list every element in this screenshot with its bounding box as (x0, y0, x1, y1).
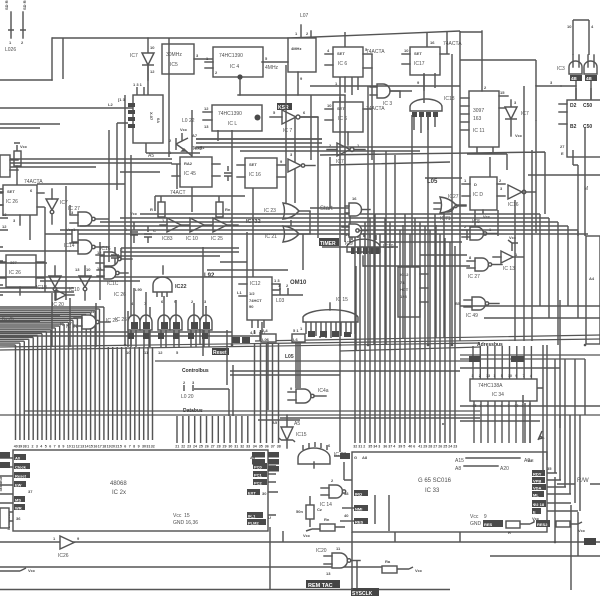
svg-text:1: 1 (493, 374, 495, 378)
svg-text:VDA: VDA (533, 486, 542, 491)
svg-text:37: 37 (271, 445, 275, 449)
svg-text:27: 27 (560, 144, 565, 149)
gate IC27b nand lower (60, 309, 110, 329)
transistor Tex2 (169, 118, 203, 156)
svg-text:90: 90 (249, 304, 254, 309)
svg-text:A7: A7 (192, 133, 198, 138)
svg-text:Φ2 18: Φ2 18 (533, 502, 545, 507)
svg-text:12: 12 (2, 224, 7, 229)
gate IC27d center (467, 255, 502, 280)
svg-text:A5: A5 (148, 153, 154, 159)
svg-text:24: 24 (193, 445, 197, 449)
inverter IC10 down left lower (69, 266, 91, 300)
IC2x outside left boxes (0, 452, 10, 528)
svg-text:EXT: EXT (248, 491, 256, 496)
svg-text:10: 10 (508, 374, 512, 378)
svg-text:RES: RES (355, 520, 364, 525)
big IC left 48068 (13, 450, 268, 531)
inverter IC21b after IC16 (288, 152, 315, 172)
counter IC11 (461, 31, 508, 147)
svg-text:5: 5 (120, 445, 122, 449)
svg-text:21: 21 (116, 445, 120, 449)
svg-text:IC7: IC7 (60, 200, 68, 206)
svg-text:IC 2x: IC 2x (112, 490, 126, 496)
capacitor C mid (124, 222, 138, 243)
svg-text:RES2: RES2 (537, 522, 548, 527)
svg-text:5: 5 (403, 445, 405, 449)
svg-text:L90: L90 (135, 287, 143, 292)
svg-text:32: 32 (151, 445, 155, 449)
svg-text:A8: A8 (362, 455, 368, 460)
svg-text:15: 15 (89, 445, 93, 449)
svg-text:C: C (153, 228, 156, 233)
svg-text:D2: D2 (570, 103, 577, 109)
svg-text:IC 27: IC 27 (334, 452, 346, 458)
svg-text:A15: A15 (455, 458, 464, 464)
svg-text:IC1C: IC1C (107, 281, 119, 287)
svg-text:IC 27: IC 27 (66, 324, 78, 330)
flipflop ICD center right (462, 177, 505, 219)
svg-text:PC0: PC0 (254, 465, 263, 470)
svg-text:40: 40 (408, 445, 412, 449)
gate ICU nand left (64, 240, 108, 254)
svg-text:4: 4 (530, 374, 532, 378)
svg-text:IC12: IC12 (250, 281, 261, 287)
shift register IC0A vertical box (108, 82, 200, 190)
clock arrow phi2 (538, 431, 543, 440)
svg-text:6: 6 (49, 445, 51, 449)
diode IC7 top (130, 38, 155, 80)
svg-text:IC18: IC18 (444, 96, 455, 102)
svg-text:IC9: IC9 (345, 241, 353, 247)
wire bottom rail3 (0, 589, 450, 591)
big IC right 65SC016 (352, 452, 547, 532)
svg-text:IC 26: IC 26 (9, 270, 21, 276)
svg-text:18: 18 (102, 445, 106, 449)
svg-text:7: 7 (54, 445, 56, 449)
svg-text:30: 30 (142, 445, 146, 449)
svg-text:19: 19 (107, 445, 111, 449)
inverter IC10b (186, 218, 213, 242)
svg-text:16: 16 (430, 40, 435, 45)
svg-text:Rn: Rn (324, 517, 330, 522)
svg-text:Cz: Cz (317, 507, 322, 512)
svg-text:IC 33: IC 33 (425, 488, 440, 494)
svg-text:30: 30 (262, 491, 267, 496)
svg-text:Controlbus: Controlbus (182, 368, 209, 374)
svg-text:27: 27 (433, 445, 437, 449)
svg-text:Reset: Reset (15, 474, 27, 479)
svg-text:12: 12 (76, 445, 80, 449)
wire (536, 85, 561, 87)
svg-text:8: 8 (58, 445, 60, 449)
svg-text:IC71: IC71 (440, 216, 451, 222)
xor gate IC23 b (265, 226, 310, 242)
svg-text:X.07: X.07 (149, 112, 154, 121)
svg-text:3097: 3097 (473, 108, 484, 114)
svg-text:13: 13 (75, 267, 80, 272)
label Reset (212, 348, 229, 355)
svg-text:29: 29 (223, 445, 227, 449)
svg-text:38: 38 (277, 445, 281, 449)
counter IC4 74HC1390 (205, 47, 263, 95)
monoflop IC12b clipped left (398, 267, 428, 317)
pads L06 row (261, 328, 305, 342)
flipflop IC12 74HCT90 (237, 277, 280, 335)
label KSR (277, 103, 292, 110)
svg-text:IC15: IC15 (296, 432, 307, 438)
svg-text:22: 22 (181, 445, 185, 449)
gate IC25 dome pair c (188, 299, 212, 347)
svg-text:0A: 0A (156, 118, 161, 123)
svg-text:74HC1390: 74HC1390 (218, 111, 242, 117)
svg-text:IK,1: IK,1 (248, 514, 256, 519)
svg-text:14: 14 (85, 445, 89, 449)
label SYSCLK (351, 588, 379, 596)
svg-text:NMI: NMI (355, 507, 362, 512)
wire (0, 107, 133, 109)
resistor divider mid R (130, 196, 231, 217)
svg-text:31: 31 (234, 445, 238, 449)
svg-text:38: 38 (23, 445, 27, 449)
svg-text:1/2: 1/2 (249, 291, 255, 296)
svg-text:IRQ: IRQ (355, 492, 362, 497)
svg-text:13: 13 (326, 571, 331, 576)
wire top rail (52, 31, 460, 38)
svg-text:12: 12 (158, 350, 163, 355)
gate IC4 d-gate near databus (288, 386, 329, 403)
svg-text:SD RS232: SD RS232 (4, 0, 9, 10)
svg-text:2: 2 (479, 374, 481, 378)
svg-text:8: 8 (133, 445, 135, 449)
svg-text:L03: L03 (276, 298, 285, 304)
svg-text:IC16: IC16 (508, 202, 519, 208)
pads left of comb risers (232, 337, 250, 343)
svg-text:16: 16 (352, 196, 357, 201)
svg-text:IC 15: IC 15 (336, 297, 348, 303)
resistor network IC15 wide dome (300, 297, 358, 338)
resistor Rn left (6, 143, 28, 185)
svg-text:25: 25 (443, 445, 447, 449)
svg-text:G 65 SC016: G 65 SC016 (418, 478, 452, 484)
svg-text:34: 34 (253, 445, 257, 449)
xor gate IC23 a (264, 203, 310, 219)
wire (51, 38, 53, 80)
gate IC7f circle a (345, 196, 370, 216)
wire vcc arrow bottom left (0, 568, 36, 573)
svg-text:13: 13 (80, 445, 84, 449)
svg-text:SET: SET (249, 162, 257, 167)
bus mid comb (177, 343, 279, 443)
svg-text:D: D (474, 182, 477, 187)
svg-text:RA2: RA2 (184, 161, 193, 166)
svg-text:REM TAC: REM TAC (308, 583, 333, 589)
svg-text:PC1: PC1 (254, 473, 263, 478)
wire 4MHz rail (238, 94, 345, 96)
svg-text:C50: C50 (583, 103, 592, 109)
gate IC27 nand left (68, 206, 108, 226)
gate IC20 bottom (316, 546, 360, 576)
svg-text:OM10: OM10 (290, 280, 307, 286)
gate IC3b nand (557, 55, 582, 100)
svg-text:23: 23 (187, 445, 191, 449)
diode IC7d (505, 100, 529, 138)
svg-text:L0 20: L0 20 (181, 394, 194, 400)
pads under IC25 domes (128, 333, 208, 339)
gate IC46 small top left cluster (0, 155, 18, 177)
svg-text:RES: RES (484, 522, 493, 527)
svg-text:WR: WR (15, 506, 22, 511)
svg-text:A0: A0 (15, 456, 21, 461)
svg-text:EW: EW (15, 483, 22, 488)
svg-text:24: 24 (448, 445, 452, 449)
svg-text:9: 9 (62, 445, 64, 449)
wire IC17 bottom (424, 73, 435, 103)
gate IC9 circle b (342, 224, 368, 247)
resistor RES pullup (483, 516, 540, 535)
buffer IC26 bottom (0, 536, 600, 559)
gate IC20 small above bus (52, 290, 74, 308)
svg-text:IC 26: IC 26 (6, 199, 18, 205)
gate IC27e above IC33 (298, 442, 346, 468)
svg-text:VPB: VPB (533, 479, 541, 484)
svg-text:12: 12 (150, 69, 155, 74)
svg-text:SET: SET (337, 106, 345, 111)
wire (262, 61, 288, 63)
svg-text:30: 30 (228, 445, 232, 449)
gate IC27c circles pair (434, 194, 466, 212)
wire horizontal into ic12 (0, 316, 60, 321)
svg-text:10: 10 (327, 103, 332, 108)
wire mesh horizontal segments (0, 32, 600, 420)
wire pads to comb (255, 330, 301, 388)
svg-text:L92: L92 (204, 273, 215, 279)
svg-text:A20: A20 (500, 466, 509, 472)
svg-text:IC 7: IC 7 (283, 128, 292, 134)
svg-text:L026: L026 (5, 47, 16, 53)
svg-text:16: 16 (93, 445, 97, 449)
svg-text:2: 2 (363, 445, 365, 449)
wire bus risers above right comb (355, 214, 455, 350)
svg-text:74HC138A: 74HC138A (478, 383, 503, 389)
capacitor 50n (296, 496, 322, 527)
svg-text:4: 4 (393, 445, 395, 449)
svg-text:IC5: IC5 (170, 62, 178, 68)
gate IC16 nand mid (96, 246, 132, 271)
svg-text:3: 3 (378, 445, 380, 449)
svg-text:IC7: IC7 (130, 53, 138, 59)
capacitor pair mid left (111, 166, 232, 264)
svg-text:A8: A8 (455, 466, 461, 472)
svg-text:26: 26 (205, 445, 209, 449)
flipflop IC17 74ACTA (402, 40, 462, 90)
svg-text:IC 20: IC 20 (52, 302, 64, 308)
svg-text:E: E (533, 510, 536, 515)
svg-text:74ACT: 74ACT (170, 190, 186, 196)
svg-text:IC 6: IC 6 (338, 61, 347, 67)
svg-text:3: 3 (472, 374, 474, 378)
svg-text:28: 28 (428, 445, 432, 449)
svg-text:32: 32 (240, 445, 244, 449)
svg-text:20: 20 (111, 445, 115, 449)
svg-text:4B: 4B (571, 76, 578, 81)
svg-text:Vcc: Vcc (180, 127, 188, 132)
svg-text:IC 26: IC 26 (114, 292, 126, 298)
wire risers above domes (134, 288, 206, 307)
inverter IC7b (270, 110, 318, 134)
svg-text:2 4: 2 4 (262, 328, 268, 333)
oscillator IC5 (162, 44, 213, 74)
svg-text:7: 7 (129, 445, 131, 449)
wire right edge feeds (573, 150, 578, 236)
inverter IC7 left (46, 189, 68, 224)
svg-text:A5: A5 (272, 420, 278, 425)
wire rail418 (280, 403, 540, 443)
svg-text:4,5: 4,5 (250, 330, 256, 335)
svg-text:R/W: R/W (577, 478, 589, 484)
svg-text:IC L: IC L (228, 121, 237, 127)
wire ICL bottom stub (218, 95, 311, 160)
flipflop IC45 mid (170, 157, 220, 196)
svg-text:[1 3: [1 3 (118, 97, 126, 102)
flipflop IC26 74ACTA (0, 179, 44, 225)
svg-text:A4: A4 (589, 276, 595, 281)
zener diode A5 (272, 415, 307, 448)
svg-text:13: 13 (486, 374, 490, 378)
svg-text:L07: L07 (300, 13, 309, 19)
svg-text:Adressbus: Adressbus (477, 342, 503, 348)
gate IC25 dome pair b (158, 299, 182, 355)
svg-text:Ra: Ra (385, 559, 391, 564)
wire IC12 to dome (272, 284, 303, 295)
svg-text:IC 45: IC 45 (184, 171, 196, 177)
svg-text:IC D: IC D (473, 192, 483, 198)
svg-text:IC 34: IC 34 (492, 392, 504, 398)
bus left comb to IC2x (16, 347, 153, 440)
gate wide nand (410, 96, 455, 133)
resistor Ra bottom (382, 559, 423, 573)
svg-text:IC 13: IC 13 (503, 266, 515, 272)
svg-text:Tastatur: Tastatur (0, 476, 3, 492)
wire L020 to databus (194, 330, 233, 416)
label TIMER dark (319, 238, 339, 246)
svg-text:5: 5 (501, 374, 503, 378)
wire bottom rail2 (0, 566, 382, 568)
svg-text:74HC1390: 74HC1390 (219, 53, 243, 59)
flipflop IC16b mid (237, 158, 285, 188)
svg-text:1 3 1: 1 3 1 (133, 82, 143, 87)
svg-text:G: G (354, 455, 357, 460)
svg-text:37: 37 (388, 445, 392, 449)
svg-text:40: 40 (14, 445, 18, 449)
svg-text:39: 39 (398, 445, 402, 449)
svg-text:10: 10 (567, 24, 572, 29)
inverter IC16c center right (500, 185, 535, 208)
svg-text:IC 27: IC 27 (468, 274, 480, 280)
connector L03 (276, 283, 289, 304)
wire databus rails (0, 361, 600, 415)
svg-text:IC 23: IC 23 (264, 208, 276, 214)
svg-text:IC17: IC17 (414, 61, 425, 67)
svg-text:IC 10: IC 10 (186, 236, 198, 242)
svg-text:50n: 50n (296, 509, 303, 514)
svg-text:IC 4: IC 4 (230, 64, 239, 70)
svg-text:MS: MS (15, 498, 21, 503)
svg-text:3: 3 (36, 445, 38, 449)
connector L026 (4, 0, 27, 53)
svg-text:26: 26 (438, 445, 442, 449)
svg-text:IC22: IC22 (175, 284, 187, 290)
inverter IC83 (160, 218, 190, 242)
wire right area extras (460, 300, 600, 470)
svg-text:10: 10 (126, 350, 131, 355)
dark centers in IC25 domes (131, 322, 210, 329)
gate IC14b between ICs (320, 478, 346, 508)
svg-text:13: 13 (2, 212, 7, 217)
svg-text:17: 17 (98, 445, 102, 449)
IC2x right top labels (252, 452, 279, 472)
svg-text:TIMER: TIMER (320, 241, 336, 247)
IC2x right pin labels (247, 455, 278, 526)
svg-text:10: 10 (404, 48, 409, 53)
wire (535, 86, 537, 120)
label REM TAC (306, 580, 340, 588)
svg-text:11: 11 (71, 445, 75, 449)
resistor RES right (536, 520, 586, 533)
gate IC19 wide dome (345, 232, 394, 266)
inverter IC18 left lower (36, 266, 61, 300)
gate IC8 center (462, 219, 497, 240)
svg-text:SD RS232: SD RS232 (22, 0, 27, 10)
svg-text:29: 29 (423, 445, 427, 449)
connector L07 (288, 13, 316, 95)
svg-text:25: 25 (199, 445, 203, 449)
svg-text:36: 36 (265, 445, 269, 449)
svg-text:21: 21 (175, 445, 179, 449)
svg-text:39: 39 (18, 445, 22, 449)
svg-text:9: 9 (515, 374, 517, 378)
svg-text:34: 34 (373, 445, 377, 449)
inverter IC25b (211, 218, 238, 242)
pads AB A15 (469, 356, 524, 362)
svg-text:27: 27 (211, 445, 215, 449)
wire IC6 IC17 top feeds (345, 31, 460, 86)
svg-text:L05: L05 (285, 354, 294, 360)
svg-text:L06: L06 (262, 337, 270, 342)
svg-text:Clock: Clock (15, 465, 27, 470)
svg-text:IC4a: IC4a (318, 388, 329, 394)
box right edge mid (584, 186, 600, 344)
bus fan left (0, 307, 260, 347)
svg-text:1: 1 (27, 445, 29, 449)
flipflop IC6 74ACTA (325, 47, 385, 92)
svg-text:Vcc1: Vcc1 (66, 227, 76, 232)
svg-text:Reset: Reset (213, 350, 227, 356)
svg-text:E: E (561, 151, 564, 156)
svg-text:35: 35 (368, 445, 372, 449)
svg-text:35: 35 (547, 466, 552, 471)
memory box right top (559, 86, 600, 157)
svg-text:L1: L1 (237, 290, 242, 295)
svg-text:RDY: RDY (533, 472, 542, 477)
gate IC3c nand (584, 55, 597, 100)
svg-text:Vcc: Vcc (515, 133, 523, 138)
inverter IC13 w Vcc (493, 235, 523, 272)
svg-text:SET: SET (7, 189, 15, 194)
svg-text:15: 15 (500, 90, 505, 95)
xor gate IC71 center (440, 197, 466, 222)
bus rails (0, 335, 600, 359)
